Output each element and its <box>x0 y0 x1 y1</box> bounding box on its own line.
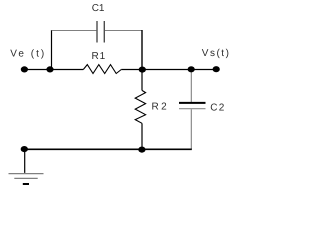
resistor R1 <box>83 65 121 74</box>
wire C1 branch down to node B <box>141 30 143 70</box>
wire node C to Vs terminal <box>191 69 216 71</box>
capacitor C2 <box>179 70 206 150</box>
svg-text:R2: R2 <box>152 101 170 112</box>
ground <box>9 149 44 184</box>
wire node A up to C1 branch <box>51 30 53 70</box>
svg-text:Ve (t): Ve (t) <box>10 49 46 60</box>
svg-text:R1: R1 <box>92 51 107 62</box>
resistor R2 <box>135 70 145 150</box>
node C junction <box>188 66 195 72</box>
svg-text:Vs(t): Vs(t) <box>202 48 231 59</box>
wire Ve terminal to R1 (top rail left) <box>24 69 83 71</box>
node A junction <box>46 66 53 72</box>
node B junction <box>139 67 146 73</box>
node Vs terminal <box>213 66 220 72</box>
capacitor C1 <box>52 21 142 43</box>
svg-text:C2: C2 <box>210 103 226 114</box>
node bottom junction <box>138 147 145 153</box>
wire bottom rail <box>24 148 191 150</box>
node ground terminal <box>21 146 28 152</box>
node Ve terminal <box>21 66 28 72</box>
wire node B to node C <box>142 69 191 71</box>
wire R1 to node B <box>121 69 142 71</box>
svg-text:C1: C1 <box>92 3 105 14</box>
